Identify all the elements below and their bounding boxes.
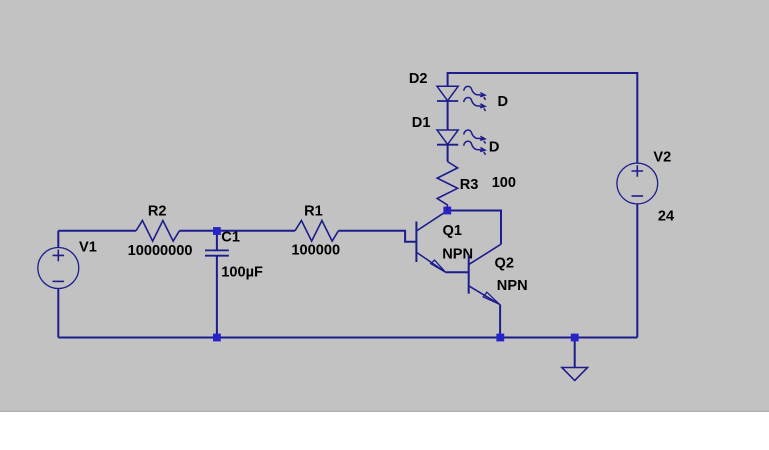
junction node at C1 bottom	[213, 334, 221, 342]
LED D2	[437, 86, 486, 111]
wire: D1 cathode to R3 top	[447, 145, 449, 162]
svg-text:D: D	[498, 94, 509, 110]
svg-text:Q2: Q2	[495, 255, 514, 271]
junction node at Q2 emitter / bottom rail	[496, 334, 504, 342]
resistor R3	[437, 162, 457, 211]
svg-text:D2: D2	[409, 71, 428, 87]
wire: D2 cathode to D1 anode	[447, 101, 449, 130]
svg-text:D: D	[489, 139, 500, 155]
svg-text:24: 24	[658, 209, 675, 225]
junction node at C1 top	[213, 227, 221, 235]
wire: V1 top lead up to signal rail	[57, 231, 59, 248]
voltage source V1	[38, 248, 79, 289]
junction node at Q1 collector / R3	[443, 207, 451, 215]
wire: Q2 emitter down to bottom rail	[499, 304, 501, 337]
wire: D2 top lead from top rail	[447, 72, 449, 86]
svg-text:100000: 100000	[291, 242, 340, 258]
ground symbol	[562, 341, 588, 381]
svg-text:100µF: 100µF	[221, 264, 263, 280]
wire: Q1 collector to Q2 collector	[447, 211, 501, 245]
wire: bottom rail (ground rail)	[58, 337, 637, 339]
svg-text:C1: C1	[221, 229, 240, 245]
svg-text:R3: R3	[460, 177, 479, 193]
wire: top rail from D2 top to V2 drop	[448, 72, 638, 74]
svg-text:R1: R1	[304, 203, 323, 219]
svg-text:D1: D1	[412, 115, 431, 131]
capacitor C1	[205, 231, 229, 338]
wire: R2 to R1 segment (through C1 node)	[179, 230, 295, 232]
svg-text:100: 100	[492, 175, 516, 191]
junction node at ground	[571, 334, 579, 342]
transistor Q1	[416, 211, 447, 273]
wire: Q1 emitter to Q2 base	[446, 271, 469, 273]
svg-text:V1: V1	[79, 240, 97, 256]
wire: V1 bottom lead down to bottom rail	[57, 289, 59, 338]
voltage source V2	[617, 163, 658, 204]
svg-text:10000000: 10000000	[128, 243, 193, 259]
wire: R1 to Q1 base with step	[338, 231, 416, 242]
svg-text:Q1: Q1	[443, 223, 462, 239]
wire: signal rail V1 to R2	[58, 230, 136, 232]
wire: V2 top vertical lead	[636, 72, 638, 163]
svg-text:NPN: NPN	[497, 278, 528, 294]
wire: V2 bottom lead down to bottom rail	[636, 204, 638, 338]
svg-text:V2: V2	[653, 150, 671, 166]
LED D1	[437, 130, 486, 155]
resistor R2	[136, 221, 179, 242]
svg-text:R2: R2	[148, 203, 167, 219]
transistor Q2	[469, 244, 501, 304]
resistor R1	[295, 221, 338, 242]
